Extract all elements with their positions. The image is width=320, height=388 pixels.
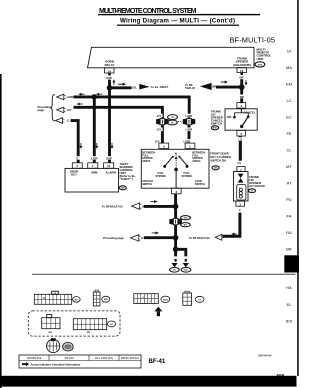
svg-text:L/OR: L/OR: [186, 128, 193, 132]
key cylinder switch pins: [159, 143, 195, 149]
connector badges M5 / B5: [168, 115, 178, 125]
svg-text:(SOLENOID): (SOLENOID): [233, 63, 251, 67]
front door key cylinder switch box: [141, 149, 209, 188]
badge oval M143: [161, 296, 170, 302]
svg-text:13: 13: [240, 69, 244, 73]
svg-text:UNIT: UNIT: [257, 57, 264, 61]
wire G/Y column to key switch: [161, 116, 164, 144]
junction node L/OR: [92, 94, 98, 100]
svg-text:Arrow indicates Amended Inform: Arrow indicates Amended Information: [31, 362, 81, 366]
svg-text:SWITCH: SWITCH: [211, 121, 222, 125]
svg-text:L/OR: L/OR: [184, 139, 191, 143]
wire label G: [75, 156, 80, 160]
svg-text:L/OR: L/OR: [91, 156, 98, 160]
wire label LG lower: [236, 161, 242, 165]
wire G/W vertical: [108, 80, 111, 88]
svg-text:BF: BF: [288, 263, 294, 269]
connector grid M143: [134, 294, 159, 304]
svg-text:B5: B5: [171, 123, 173, 125]
wire DR down to cancel switch: [240, 87, 243, 103]
page connector arrow G: [55, 118, 64, 124]
svg-text:N: N: [175, 151, 177, 155]
svg-text:MULTI-REMOTE CONTROL SYSTEM: MULTI-REMOTE CONTROL SYSTEM: [99, 8, 197, 15]
wire label G/W: [105, 156, 112, 160]
svg-text:PD: PD: [286, 197, 292, 202]
wire G/W column down to ALARM: [108, 88, 111, 163]
svg-text:G/Y: G/Y: [155, 139, 160, 143]
svg-text:L/OR: L/OR: [186, 114, 193, 118]
svg-text:14: 14: [108, 70, 112, 74]
svg-text:BF-41: BF-41: [149, 359, 166, 365]
svg-text:B10: B10: [184, 225, 187, 227]
badge oval B20 (gray): [63, 342, 74, 351]
wire from actuator to BF-MULTI-03: [222, 213, 240, 237]
svg-text:SBF464W: SBF464W: [258, 353, 272, 357]
amendment arrow right: [150, 200, 157, 203]
amendment arrow left 2: [96, 93, 102, 96]
wire B right branch: [176, 249, 186, 256]
junction node B1: [173, 204, 179, 210]
wire label L/OR below connector: [184, 128, 193, 132]
connector badge B20: [181, 268, 191, 273]
LEGEND: [28, 290, 204, 353]
off-page connector To BF-MULTI-02: [132, 203, 142, 210]
svg-text:D25: D25: [214, 168, 217, 170]
wire DR vertical: [240, 79, 243, 87]
svg-text:MA: MA: [286, 65, 292, 70]
separator line above connector legend: [32, 273, 296, 276]
wire label L/OR: [90, 156, 98, 160]
wire B to BF-MULTI-02: [144, 205, 176, 208]
amendment arrow right: [118, 83, 126, 86]
svg-text:EC: EC: [286, 115, 292, 120]
wire label G/Y above connector: [155, 114, 162, 118]
svg-text:MT: MT: [286, 164, 292, 169]
off-page connector To BF-MULTI-03: [215, 234, 222, 240]
wire B to preceding page: [144, 236, 176, 239]
wire L/OR horizontal, turns down at right: [74, 97, 190, 116]
svg-text:M26: M26: [121, 188, 125, 190]
connector badge M19: [255, 62, 265, 67]
pin 13 connector (trunk opener output): [237, 68, 247, 75]
bottom black bar: [0, 376, 297, 387]
off-page arrow To EL-THEFT: [139, 84, 149, 90]
MAIN_DIAGRAM: [38, 47, 272, 272]
svg-text:M143: M143: [213, 127, 218, 130]
amendment arrow left: [77, 103, 83, 106]
badge oval M26: [102, 296, 110, 302]
svg-text:FE: FE: [286, 131, 291, 136]
trunk lid opener cancel switch: [225, 103, 257, 137]
connector badge D25: [212, 166, 219, 170]
svg-text:Preceding page: Preceding page: [103, 236, 124, 240]
badge oval M19: [73, 297, 81, 303]
svg-text:M3: M3: [173, 270, 176, 272]
svg-text:KEY CYLINDER: KEY CYLINDER: [210, 155, 230, 159]
connector grid T4: [183, 291, 192, 305]
svg-text:LC: LC: [286, 98, 291, 103]
label MULTI-REMOTE CONTROL UNIT: [257, 47, 272, 61]
svg-text:M5: M5: [171, 117, 174, 119]
svg-text:ALARM: ALARM: [106, 171, 117, 175]
junction node G/W: [107, 85, 113, 91]
label theft warning control unit: [120, 162, 137, 181]
inline connector on G/Y: [156, 119, 169, 125]
label preceding page: [38, 105, 52, 112]
subtitle underline: [117, 25, 239, 26]
amendment arrow down (G wire): [79, 143, 82, 149]
svg-text:ACTUATOR: ACTUATOR: [249, 184, 265, 188]
junction node B3: [173, 247, 179, 253]
svg-text:LG: LG: [237, 161, 241, 165]
wire DR to left: [216, 86, 242, 89]
svg-text:B: B: [142, 205, 144, 209]
svg-text:BF-MULTI-05: BF-MULTI-05: [230, 35, 276, 44]
amendment arrow down (G/W wire): [111, 143, 114, 149]
label trunk lid opener actuator: [249, 175, 265, 188]
connector grid M19 (control unit): [34, 291, 71, 304]
tab BF highlighted: [284, 255, 299, 272]
svg-text:To BF-MULTI-03: To BF-MULTI-03: [189, 236, 210, 240]
svg-text:EL: EL: [287, 302, 293, 307]
amendment arrow right: [152, 232, 159, 235]
svg-text:ON: ON: [227, 115, 232, 119]
right page border line: [297, 0, 299, 376]
wire B column: [174, 194, 177, 257]
inline connector on B: [169, 219, 182, 225]
svg-text:G/W: G/W: [106, 76, 112, 80]
svg-text:AT: AT: [287, 181, 292, 186]
brace: [50, 94, 54, 121]
theft warning control unit pins: [72, 163, 113, 168]
connector grid M26: [93, 290, 100, 306]
svg-text:G/W: G/W: [106, 156, 112, 160]
svg-text:10: 10: [107, 164, 111, 168]
connector badge T4: [249, 189, 256, 193]
svg-text:SWITCH: SWITCH: [142, 182, 152, 186]
svg-text:GI: GI: [287, 49, 291, 54]
svg-text:L/OR: L/OR: [67, 95, 74, 99]
svg-text:LG: LG: [238, 137, 242, 141]
svg-text:B: B: [141, 236, 143, 240]
svg-text:RA: RA: [286, 230, 292, 235]
theft warning control unit box: [65, 168, 119, 192]
svg-text:DR: DR: [240, 95, 244, 99]
svg-text:M143: M143: [163, 298, 169, 301]
connector badge M143: [211, 126, 218, 130]
svg-text:G/Y: G/Y: [67, 108, 72, 112]
svg-text:page: page: [38, 109, 45, 112]
wire G/L horizontal: [110, 86, 132, 89]
svg-text:ARM: ARM: [91, 171, 98, 175]
svg-text:To EL-THEFT: To EL-THEFT: [151, 85, 169, 89]
off-page arrow To BF-T&FL/D: [200, 83, 212, 90]
svg-text:KEY: KEY: [71, 173, 77, 177]
amendment arrow down: [244, 80, 247, 85]
amendment arrow right: [221, 81, 228, 84]
svg-text:SMA95-119: SMA95-119: [27, 356, 42, 360]
amendment arrow up: [112, 79, 115, 85]
left page border line: [0, 74, 2, 388]
svg-text:Dec 1993 (04): Dec 1993 (04): [95, 356, 113, 360]
wire G turns down to door key: [71, 121, 79, 163]
svg-text:T4: T4: [251, 190, 253, 193]
svg-text:CL: CL: [286, 148, 292, 153]
amendment arrow left: [78, 93, 84, 96]
wire label L/OR above connector: [184, 114, 193, 118]
page connector arrow G/Y: [57, 107, 66, 113]
ground arrow left: [171, 263, 177, 267]
connector badges M15 / B10: [181, 216, 191, 227]
svg-text:G/L: G/L: [132, 86, 137, 90]
PAGE_HEADER: [98, 8, 275, 45]
svg-text:IDX: IDX: [286, 318, 293, 323]
label trunk lid opener cancel switch: [211, 109, 223, 125]
connector grid B5 (in dashed box): [73, 319, 106, 335]
dashed group box: [28, 311, 120, 336]
inline connector on L/OR: [183, 119, 196, 125]
multi-remote control unit box (top, torn left edge): [88, 47, 255, 68]
svg-text:Wiring Diagram — MULTI — (Cont: Wiring Diagram — MULTI — (Cont’d): [120, 18, 235, 25]
svg-text:"THEFT".): "THEFT".): [120, 177, 133, 181]
amended arrow black up: [154, 307, 162, 317]
badge oval T4: [195, 296, 204, 302]
svg-text:M15: M15: [184, 218, 188, 220]
round connector B20: [47, 338, 60, 352]
connector badge M26: [119, 186, 126, 190]
connector stub left: [175, 259, 177, 262]
wire label G/Y above pin: [154, 139, 161, 143]
connector stub right: [185, 259, 187, 262]
wire label G/Y below connector: [155, 128, 162, 132]
svg-text:SWITCH: SWITCH: [195, 182, 205, 186]
svg-text:FA: FA: [287, 214, 292, 219]
wire G/Y horizontal, turns down at right: [74, 107, 163, 115]
svg-text:STROKE: STROKE: [155, 174, 166, 178]
svg-text:STROKE: STROKE: [181, 174, 192, 178]
svg-text:AND N: AND N: [192, 159, 200, 163]
svg-text:B20: B20: [184, 270, 187, 272]
FOOTER: [19, 353, 272, 368]
title underline: [98, 14, 260, 15]
junction node B2: [173, 235, 179, 241]
off-page connector preceding page: [131, 235, 141, 242]
svg-text:To BF-MULTI-02: To BF-MULTI-02: [102, 204, 123, 208]
svg-text:SWITCH RH: SWITCH RH: [210, 158, 226, 162]
page connector arrow L/OR: [57, 94, 66, 100]
svg-text:BR: BR: [286, 247, 292, 252]
svg-text:DR: DR: [240, 76, 244, 80]
pin 14 connector (horn relay output): [105, 68, 115, 76]
key cylinder bottom pin: [172, 188, 182, 194]
svg-text:G/Y: G/Y: [157, 128, 162, 132]
wire label L/OR above pin: [182, 139, 191, 143]
ground arrow right: [183, 263, 189, 267]
amendment arrow down (L/OR wire): [95, 143, 98, 149]
wire L/OR column to key switch: [188, 116, 191, 144]
svg-text:659: 659: [277, 373, 285, 378]
svg-text:’93 G20: ’93 G20: [64, 356, 74, 360]
svg-text:T&FL/D: T&FL/D: [185, 86, 195, 90]
wire L/OR column down to ARM: [93, 97, 96, 163]
svg-text:G/Y: G/Y: [157, 114, 162, 118]
wire LG from cancel switch down: [239, 136, 242, 161]
wire label DR (on wire): [238, 95, 245, 99]
footer table: [19, 355, 141, 368]
svg-text:RELAY: RELAY: [105, 63, 115, 67]
connector grid M5 (in dashed box): [42, 315, 60, 335]
badge oval B5: [108, 321, 116, 327]
wire label LG: [237, 137, 243, 141]
svg-text:AND N: AND N: [142, 159, 150, 163]
svg-text:RM4O-0P10L0: RM4O-0P10L0: [121, 356, 140, 360]
svg-text:DR: DR: [212, 84, 216, 88]
trunk lid opener actuator: [234, 167, 249, 207]
dashed link between connectors: [178, 121, 183, 123]
connector badge M3: [170, 268, 180, 273]
SIDE_TABS: [284, 49, 299, 324]
amendment arrow left: [231, 233, 236, 236]
svg-text:HA: HA: [286, 285, 292, 290]
svg-text:EM: EM: [286, 82, 292, 87]
svg-text:FRONT DOOR: FRONT DOOR: [210, 151, 229, 155]
junction node DR: [239, 84, 245, 90]
label front door key cylinder switch RH: [210, 151, 230, 162]
